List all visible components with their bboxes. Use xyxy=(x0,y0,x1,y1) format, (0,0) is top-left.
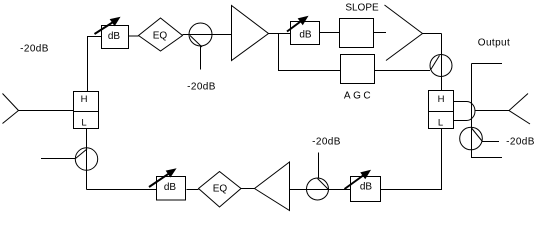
svg-text:L: L xyxy=(438,118,443,129)
svg-text:dB: dB xyxy=(360,182,373,193)
amplifier A2 xyxy=(385,5,423,61)
wire AT4 to amplifier A3 xyxy=(290,189,351,191)
stub from SLOPE box xyxy=(374,32,387,34)
wire FL2 L-port down to return path xyxy=(381,129,442,190)
wire A2 to coupler TP2 xyxy=(423,34,442,92)
stub TP4 tap xyxy=(41,158,76,160)
wire up through TP4 to FL1 L-port xyxy=(86,129,88,190)
diplex filter FL2 (H/L) xyxy=(429,91,454,129)
svg-text:H: H xyxy=(81,94,88,105)
output port J2 xyxy=(509,94,530,125)
svg-text:EQ: EQ xyxy=(153,31,168,42)
variable attenuator AT3 (dB, return) xyxy=(149,169,186,200)
svg-text:dB: dB xyxy=(108,31,121,42)
test point coupler TP5 (output) xyxy=(460,127,499,150)
svg-text:H: H xyxy=(438,94,445,105)
wire A3 to EQ2 xyxy=(241,188,255,190)
variable attenuator AT4 (dB, return) xyxy=(345,171,381,202)
output test vertical wire xyxy=(472,64,503,158)
equalizer EQ1 xyxy=(139,18,183,51)
test point coupler TP3 (return) xyxy=(307,153,329,201)
wire AT3 to corner xyxy=(87,189,157,191)
svg-text:SLOPE: SLOPE xyxy=(345,3,379,14)
variable attenuator AT1 (dB) xyxy=(95,18,129,49)
wire branch to AGC xyxy=(279,34,341,71)
variable attenuator AT2 (dB) xyxy=(287,17,320,45)
svg-text:-20dB: -20dB xyxy=(20,44,49,55)
coupler TP2 (AGC pickoff) xyxy=(430,55,452,77)
SLOPE control box xyxy=(340,19,374,48)
svg-text:-20dB: -20dB xyxy=(506,137,535,148)
wire AT1 to EQ1 xyxy=(129,35,139,37)
svg-text:L: L xyxy=(81,118,86,129)
test point coupler TP4 (return input) xyxy=(75,148,97,170)
svg-text:EQ: EQ xyxy=(213,184,228,195)
svg-text:-20dB: -20dB xyxy=(312,137,341,148)
svg-text:Output: Output xyxy=(478,38,510,49)
diplex filter FL1 (H/L) xyxy=(74,92,99,129)
equalizer EQ2 (return) xyxy=(199,172,242,208)
wire A1 to AT2 xyxy=(269,33,291,35)
wire diplexer H-port to attenuator AT1 xyxy=(88,37,102,92)
wire combiner to output port xyxy=(476,110,510,112)
wire AGC output to coupler TP2 xyxy=(375,70,431,72)
input port J1 xyxy=(3,94,19,124)
amplifier A1 xyxy=(232,6,269,61)
svg-text:dB: dB xyxy=(164,182,177,193)
AGC box xyxy=(341,55,375,84)
wire AT2 to SLOPE xyxy=(320,32,340,34)
combiner (D shape) xyxy=(454,102,476,121)
svg-text:dB: dB xyxy=(299,30,312,41)
test point coupler TP1 xyxy=(189,23,212,70)
output test top stub xyxy=(472,63,503,65)
svg-text:AGC: AGC xyxy=(344,91,373,102)
wire EQ1 to amplifier A1 xyxy=(183,34,232,36)
svg-text:-20dB: -20dB xyxy=(187,82,216,93)
wire input to left diplexer xyxy=(19,110,74,112)
amplifier A3 (return, points left) xyxy=(255,162,290,211)
wire EQ2 to attenuator AT3 xyxy=(187,189,199,191)
